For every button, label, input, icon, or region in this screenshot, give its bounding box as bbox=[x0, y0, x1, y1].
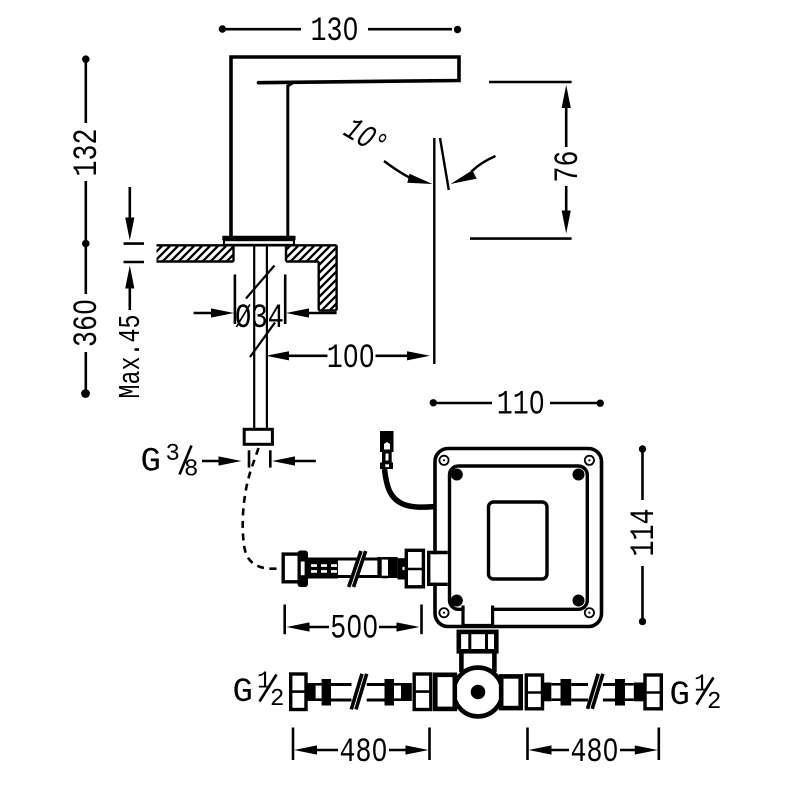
500 hose: collar bar bbox=[298, 551, 309, 588]
svg-text:480: 480 bbox=[340, 734, 388, 772]
G 1/2 label left bbox=[233, 669, 285, 714]
svg-text:360: 360 bbox=[69, 299, 107, 347]
svg-text:2: 2 bbox=[270, 686, 284, 713]
counter section hatched bbox=[157, 245, 337, 310]
500 hose: break slashes bbox=[351, 551, 365, 587]
svg-text:Ø34: Ø34 bbox=[235, 300, 284, 338]
500 hose: bands bbox=[377, 557, 381, 578]
mixer right arm bbox=[501, 676, 521, 708]
svg-text:G: G bbox=[670, 677, 690, 715]
dim 100 bbox=[266, 351, 430, 360]
500 hose: right nut bbox=[406, 550, 423, 587]
break slash 1 bbox=[246, 266, 275, 299]
svg-text:132: 132 bbox=[69, 129, 107, 177]
supply shank pipe bbox=[246, 245, 275, 429]
dashed flexible hose bbox=[243, 448, 281, 569]
svg-text:8: 8 bbox=[184, 457, 198, 484]
500 hose: braid section bbox=[308, 558, 338, 579]
dim 500 bbox=[285, 605, 422, 635]
control cable connector bbox=[380, 431, 394, 469]
dim O34 bbox=[194, 275, 337, 325]
svg-text:G: G bbox=[233, 674, 253, 712]
mixer center dot bbox=[471, 685, 486, 700]
left 480 hose bbox=[291, 674, 431, 710]
dim 76 bbox=[470, 82, 572, 239]
mixer inlet nut bbox=[459, 632, 497, 651]
svg-text:Max.45: Max.45 bbox=[114, 315, 149, 399]
svg-text:2: 2 bbox=[707, 689, 721, 716]
mixer valve body circle bbox=[454, 668, 503, 717]
box inner frame bbox=[450, 466, 588, 609]
mixer left arm bbox=[435, 675, 455, 709]
500 hose: tube bbox=[338, 559, 378, 577]
G 1/2 label right bbox=[670, 672, 722, 717]
svg-text:114: 114 bbox=[626, 509, 664, 557]
svg-text:100: 100 bbox=[327, 340, 375, 378]
svg-text:3: 3 bbox=[166, 441, 180, 468]
faucet body right edge bbox=[288, 83, 293, 237]
control cable bbox=[385, 469, 447, 507]
svg-text:110: 110 bbox=[497, 387, 545, 425]
sensor stream tilted line 10deg bbox=[440, 138, 449, 190]
mixer stem bbox=[461, 651, 494, 672]
svg-text:G: G bbox=[141, 444, 161, 482]
dim 130 bbox=[219, 25, 461, 33]
svg-text:130: 130 bbox=[311, 13, 359, 51]
dim 480 right bbox=[528, 728, 659, 761]
break slash 2 bbox=[250, 323, 275, 358]
right 480 hose bbox=[526, 674, 661, 709]
G 3/8 dim arrows bbox=[202, 450, 316, 467]
dim Max.45 bbox=[124, 187, 145, 310]
box left tab (hose inlet) bbox=[429, 553, 448, 585]
G 3/8 label bbox=[141, 441, 199, 484]
box screws bbox=[439, 456, 594, 618]
sensor window bbox=[489, 502, 548, 579]
dim 132 / 360 vertical chain bbox=[81, 55, 90, 398]
dim 114 bbox=[639, 445, 646, 625]
dim 480 left bbox=[293, 728, 430, 761]
svg-text:480: 480 bbox=[571, 734, 619, 772]
dim 110 bbox=[430, 399, 604, 407]
500 hose: left nut bbox=[283, 554, 301, 582]
box bottom tab (outlet) bbox=[463, 606, 493, 626]
control box outer bbox=[435, 449, 602, 627]
inner frame corner dots bbox=[451, 469, 585, 607]
faucet base flange bbox=[222, 238, 295, 245]
G3/8 nut bbox=[244, 429, 272, 444]
svg-text:76: 76 bbox=[550, 151, 588, 183]
faucet outline bbox=[231, 57, 459, 237]
svg-text:500: 500 bbox=[330, 611, 378, 649]
sensor stream vertical line bbox=[433, 138, 435, 364]
10 deg arc left with arrow bbox=[384, 156, 496, 184]
